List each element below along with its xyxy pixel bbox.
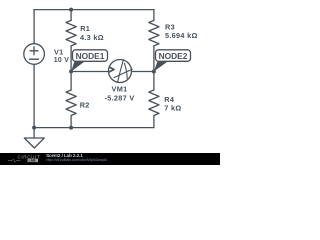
resistor R4 body (149, 90, 159, 116)
wire R3 bottom lead to NODE2 (153, 46, 155, 72)
node A label NODE1 box (73, 50, 108, 62)
V1 minus sign (30, 58, 39, 60)
resistor R3 body (149, 20, 159, 46)
svg-text:LAB: LAB (29, 159, 37, 163)
wire R2 bottom lead (70, 116, 72, 128)
logo LAB box (28, 159, 39, 162)
voltmeter meter arc left (118, 60, 124, 82)
svg-text:-5.287 V: -5.287 V (105, 94, 135, 103)
voltmeter plus terminal mark (110, 67, 114, 72)
svg-text:10 V: 10 V (54, 57, 69, 64)
wire R1 top lead (70, 10, 72, 21)
voltmeter meter arc right (124, 63, 127, 78)
junction node NODE2 dot (152, 70, 156, 74)
wire voltmeter to NODE2 (132, 71, 154, 73)
wire R1 bottom lead to NODE1 (70, 46, 72, 72)
wire left vertical top (V1 top lead) (33, 10, 35, 44)
junction dot top of R1 (69, 8, 73, 12)
wire left vertical bottom (V1 bottom lead) (33, 64, 35, 127)
svg-text:http://circuitlab.com/c6vW9p53: http://circuitlab.com/c6vW9p53wqd4 (46, 158, 107, 162)
wire R3 top lead (153, 10, 155, 21)
resistor R2 body (66, 90, 76, 116)
junction node NODE1 dot (69, 70, 73, 74)
ground stub wire (33, 128, 35, 138)
voltage source V1 circle (24, 44, 45, 65)
svg-text:NODE2: NODE2 (159, 51, 188, 61)
V1 plus sign (30, 47, 38, 55)
ground symbol triangle (24, 138, 44, 148)
footer bar (0, 153, 220, 165)
svg-text:VM1: VM1 (112, 85, 128, 94)
NODE1 pointer wedge (71, 61, 85, 71)
wire top horizontal (34, 9, 154, 11)
wire R4 bottom lead (153, 116, 155, 128)
NODE2 pointer wedge (154, 61, 168, 71)
voltmeter needle (114, 69, 132, 77)
svg-text:5.694 kΩ: 5.694 kΩ (165, 31, 198, 40)
svg-text:R1: R1 (80, 24, 90, 33)
wire bottom horizontal (34, 127, 154, 129)
voltmeter VM1 circle (109, 60, 132, 83)
junction dot ground (32, 126, 36, 130)
svg-text:7 kΩ: 7 kΩ (164, 103, 181, 112)
svg-text:4.3 kΩ: 4.3 kΩ (80, 33, 104, 42)
svg-text:R2: R2 (80, 101, 90, 110)
svg-text:V1: V1 (54, 47, 64, 56)
logo waveform (8, 159, 21, 162)
svg-text:NODE1: NODE1 (76, 51, 105, 61)
junction dot bottom of R2 (69, 126, 73, 130)
node B label NODE2 box (156, 50, 191, 62)
resistor R1 body (66, 20, 76, 46)
wire R2 top lead (70, 72, 72, 91)
wire R4 top lead (153, 72, 155, 91)
wire NODE1 to voltmeter (71, 71, 109, 73)
